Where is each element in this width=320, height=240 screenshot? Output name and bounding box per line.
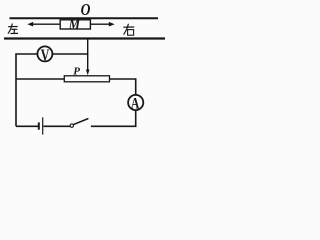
block M — [60, 20, 90, 29]
bottom rail — [4, 37, 165, 39]
svg-text:O: O — [81, 1, 91, 20]
wire: right lead down to ammeter — [135, 78, 137, 94]
wire: ammeter bottom to bottom-right corner — [91, 110, 136, 126]
label you (right) — [124, 24, 134, 35]
top rail — [10, 17, 159, 19]
battery B1 long plate — [42, 117, 44, 134]
label zuo (left) — [8, 24, 17, 34]
wire: bottom left run — [16, 125, 38, 127]
rheostat R1 — [16, 78, 64, 80]
ammeter A1 — [128, 95, 143, 110]
left arrow — [31, 23, 60, 25]
switch S1 blade — [73, 119, 88, 125]
wire: voltmeter left lead + left vertical — [16, 54, 37, 126]
right arrow — [91, 23, 110, 25]
wire: voltmeter right lead to slider wire — [53, 53, 89, 55]
battery B1 short plate — [38, 122, 40, 129]
wire: slider vertical from bottom rail — [87, 39, 89, 71]
wire: battery to switch — [44, 125, 71, 127]
switch S1 pivot — [70, 124, 73, 127]
svg-text:V: V — [41, 47, 50, 65]
svg-text:M: M — [68, 17, 82, 32]
voltmeter V1 — [37, 46, 52, 61]
